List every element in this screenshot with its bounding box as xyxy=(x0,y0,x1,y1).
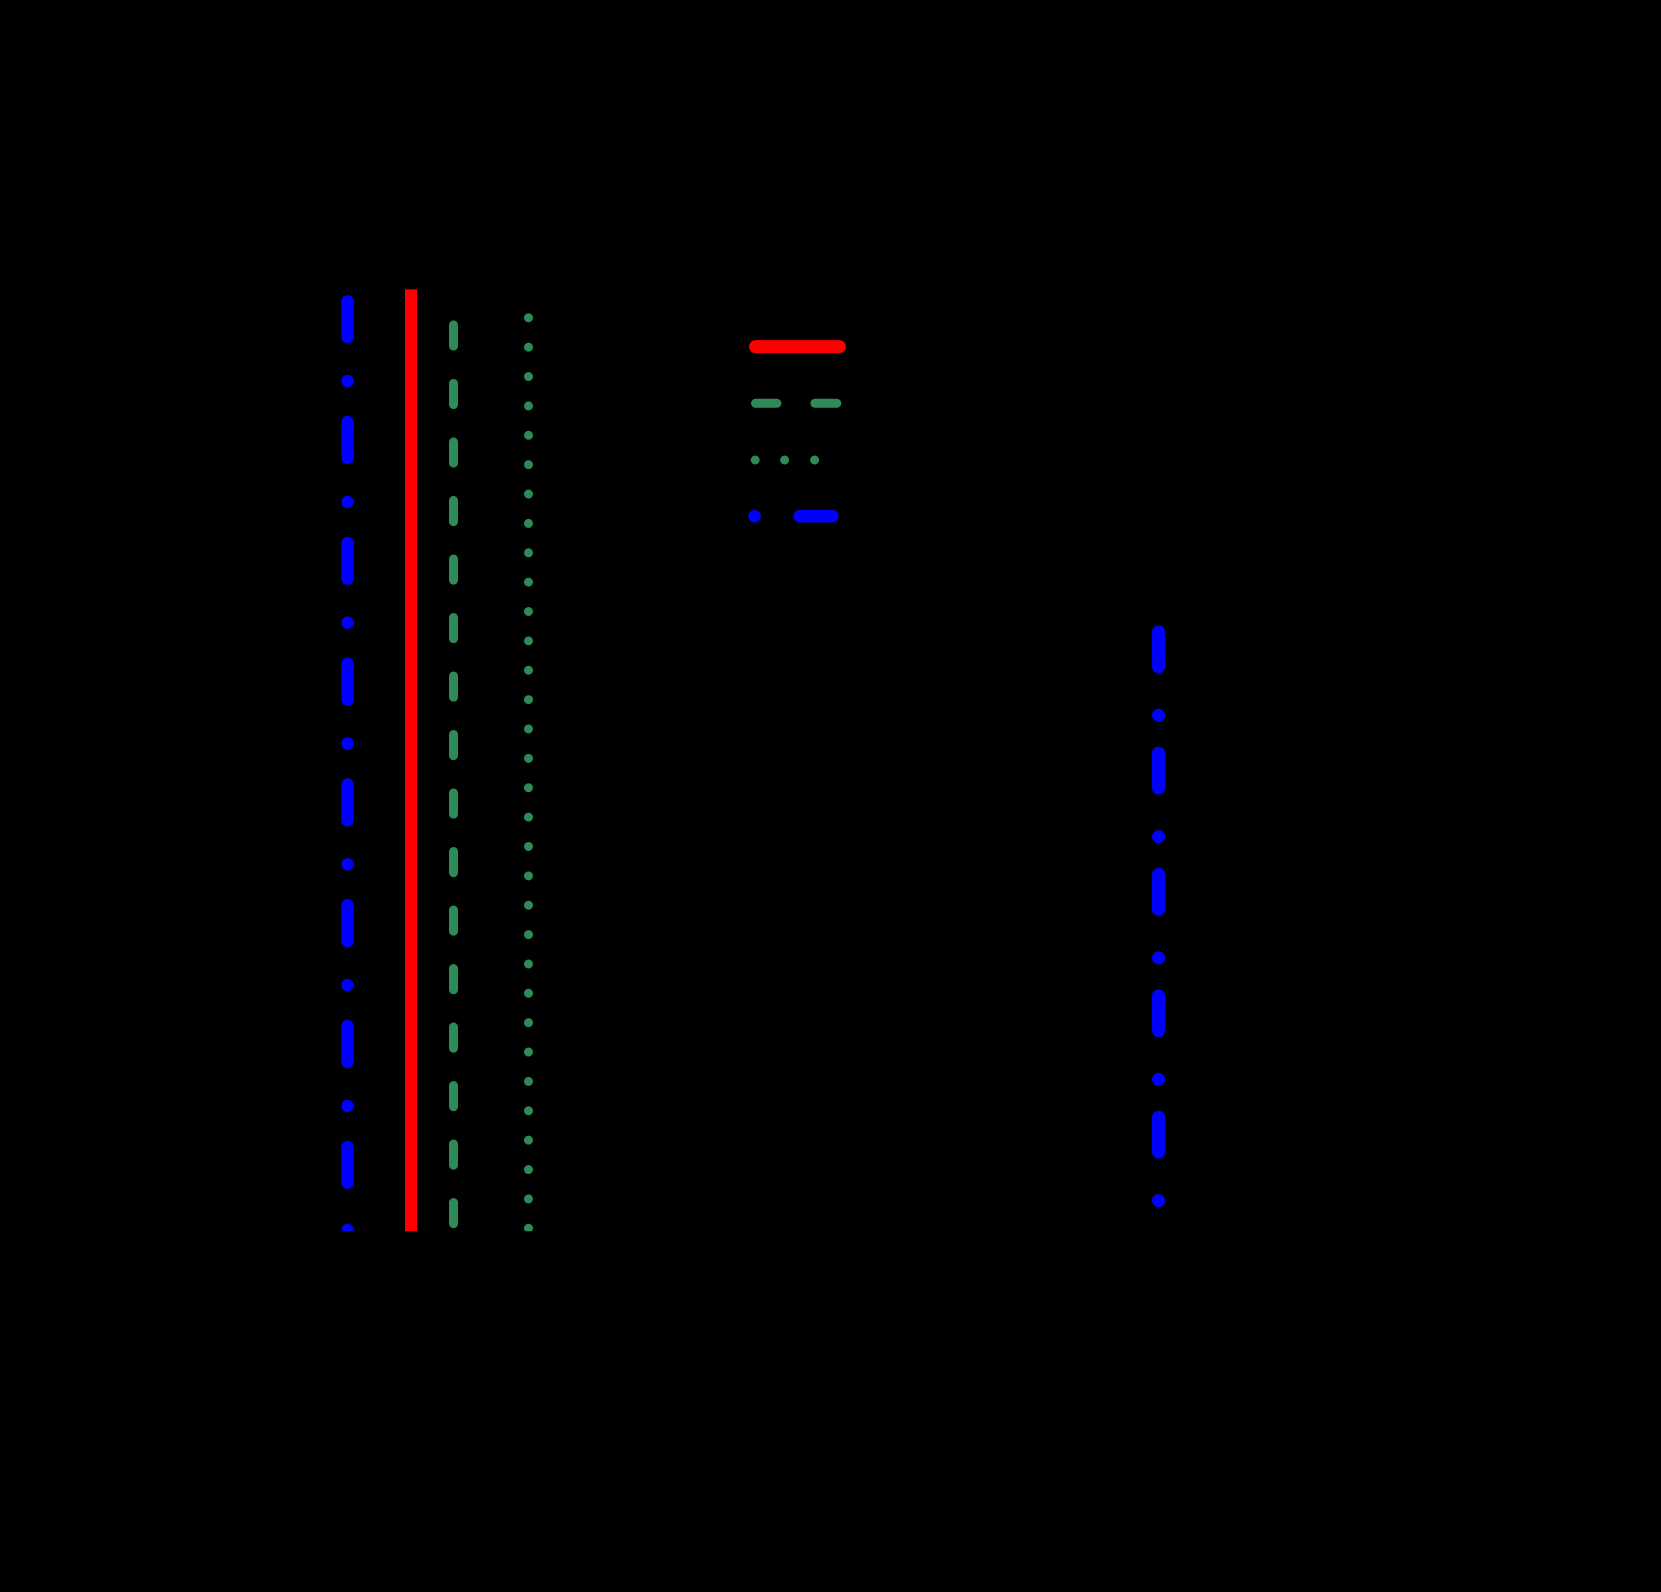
legend: red solid sample xyxy=(756,340,840,353)
red solid vertical line xyxy=(405,289,417,1231)
legend: blue dash-dot sample xyxy=(748,510,832,523)
legend: green dashed sample xyxy=(756,399,837,408)
legend: green dotted sample xyxy=(751,456,819,465)
blue dash-dot vertical line (left) xyxy=(341,301,353,1236)
green dotted vertical line xyxy=(524,313,533,1232)
blue dash-dot vertical line (right) xyxy=(1152,632,1165,1207)
green dashed vertical line xyxy=(449,325,458,1224)
